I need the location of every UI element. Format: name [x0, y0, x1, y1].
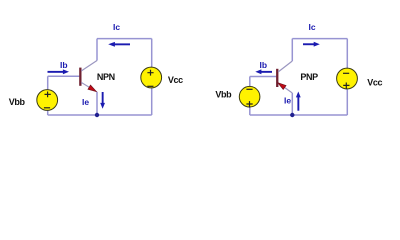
wire: PNP left rail (through Vbb): [249, 77, 251, 116]
voltage source Vcc (right) body: [337, 68, 358, 89]
wire: NPN collector riser: [96, 39, 98, 61]
voltage source Vbb minus sign (bottom): [44, 107, 50, 109]
transistor Q2 PNP: base bar: [276, 69, 278, 87]
wire: NPN emitter drop: [96, 92, 98, 115]
voltage source Vbb plus sign (top): [45, 92, 51, 98]
voltage source Vbb (right) body: [239, 86, 260, 107]
voltage source Vcc minus sign (bottom): [147, 85, 153, 87]
svg-text:Ic: Ic: [113, 22, 120, 32]
svg-text:Vcc: Vcc: [367, 77, 382, 87]
current arrow Ib (NPN, points right): [48, 69, 70, 74]
wire: PNP collector riser: [291, 39, 293, 61]
transistor Q1 NPN: emitter arrow (points out, down-right): [88, 85, 96, 91]
svg-text:Ib: Ib: [260, 60, 268, 70]
voltage source Vcc plus sign (top): [147, 70, 153, 76]
wire: PNP right rail (through Vcc): [346, 39, 348, 115]
wire: NPN left rail (through Vbb): [47, 76, 49, 115]
voltage source Vcc (right) plus sign (bottom): [343, 83, 349, 90]
voltage source Vcc (right) minus sign (top): [343, 72, 349, 74]
current arrow Ic (right circuit, points right): [303, 42, 320, 47]
wire: PNP top rail: [292, 38, 347, 40]
svg-text:Ib: Ib: [60, 60, 68, 70]
transistor Q1 NPN: collector line: [81, 61, 97, 72]
junction: PNP emitter to bottom rail: [290, 113, 294, 117]
transistor Q2 PNP: emitter line: [278, 83, 292, 93]
transistor Q2 PNP: emitter arrow (points in, up-left toward bar): [278, 83, 286, 90]
voltage source Vbb (right) minus sign (top): [246, 88, 252, 90]
current arrow Ie (NPN, points down): [100, 92, 105, 109]
svg-text:NPN: NPN: [97, 72, 115, 82]
wire: NPN bottom rail: [48, 114, 152, 116]
current arrow Ie (PNP, points up): [296, 92, 301, 111]
transistor Q1 NPN: base bar: [79, 68, 81, 86]
wire: PNP bottom rail: [250, 114, 347, 116]
svg-text:PNP: PNP: [300, 72, 318, 82]
junction: NPN emitter to bottom rail: [95, 113, 99, 117]
wire: NPN top rail (collector to Vcc): [97, 38, 152, 40]
wire: PNP emitter drop: [291, 93, 293, 115]
svg-text:Ic: Ic: [309, 22, 316, 32]
transistor Q2 PNP: collector line: [278, 61, 292, 72]
current arrow Ic (left circuit, points left): [108, 42, 130, 47]
current arrow Ib (PNP, points left): [255, 69, 272, 74]
svg-text:Vbb: Vbb: [9, 97, 26, 107]
svg-text:Ie: Ie: [284, 96, 291, 106]
wire: NPN base lead: [48, 75, 80, 77]
wire: PNP base lead: [250, 76, 276, 78]
transistor Q1 NPN: emitter line: [81, 82, 96, 91]
voltage source Vbb (left) body: [37, 90, 58, 111]
svg-text:Vcc: Vcc: [168, 75, 183, 85]
svg-text:Vbb: Vbb: [215, 90, 232, 100]
voltage source Vcc (left) body: [141, 67, 162, 88]
wire: NPN right rail (through Vcc): [151, 39, 153, 115]
voltage source Vbb (right) plus sign (bottom): [246, 101, 252, 108]
svg-text:Ie: Ie: [82, 97, 89, 107]
